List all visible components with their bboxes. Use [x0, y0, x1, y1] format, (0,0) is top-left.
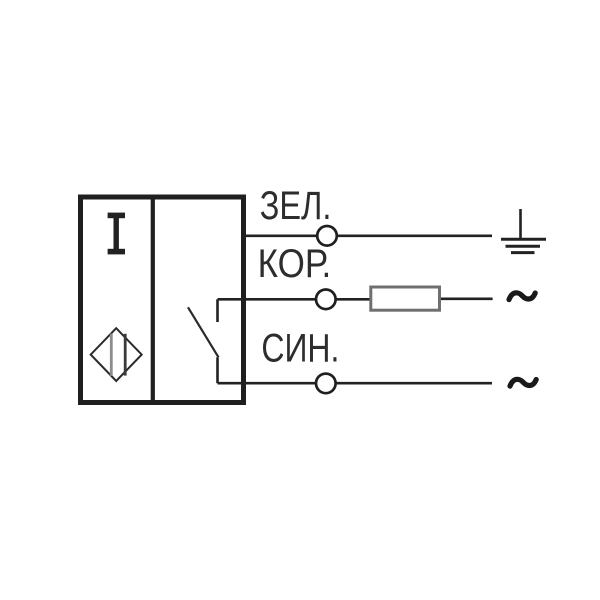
diamond right vertical line [124, 334, 127, 376]
switch lever [188, 307, 219, 357]
svg-text:СИН.: СИН. [261, 325, 339, 370]
AC tilde bottom [510, 379, 536, 386]
wire green ZEL [244, 234, 492, 237]
ground bar 2 [506, 245, 541, 248]
terminal circle brown [316, 290, 336, 310]
diamond left vertical line [110, 334, 113, 376]
ground stem [519, 209, 522, 239]
load resistor box [371, 287, 440, 310]
wire blue SIN [218, 382, 493, 385]
sensor body divider [151, 197, 155, 402]
ground bar 1 [501, 238, 546, 241]
sensor body outer rectangle [81, 197, 244, 403]
inductive symbol I [108, 213, 125, 255]
svg-text:ЗЕЛ.: ЗЕЛ. [260, 183, 332, 228]
switch bottom terminal [216, 357, 219, 383]
wire brown KOR inside to circle [218, 298, 370, 301]
terminal circle green [317, 226, 337, 246]
AC tilde middle [509, 293, 535, 300]
ground bar 3 [511, 251, 535, 254]
terminal circle blue [316, 374, 336, 394]
proximity sensor diamond [91, 328, 142, 381]
switch top terminal [216, 299, 219, 322]
wire resistor to AC [441, 297, 493, 300]
svg-text:КОР.: КОР. [258, 241, 332, 286]
